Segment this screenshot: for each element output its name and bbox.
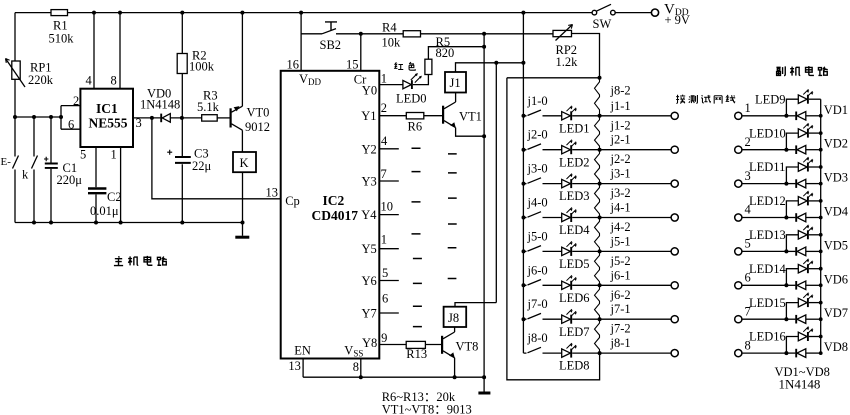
- svg-text:Y8: Y8: [362, 336, 377, 350]
- svg-text:j3-2: j3-2: [610, 186, 631, 200]
- IC1 pins 2/6 bracket: [61, 106, 80, 130]
- wire LED branch row 3: [786, 167, 798, 184]
- svg-text:k: k: [22, 168, 29, 182]
- svg-text:LED4: LED4: [559, 223, 590, 237]
- wire LED branch row 6: [786, 269, 798, 286]
- svg-text:VD8: VD8: [824, 340, 848, 354]
- svg-text:Y5: Y5: [362, 242, 377, 256]
- transistor VT8: [441, 336, 443, 354]
- svg-text:j1-0: j1-0: [527, 94, 548, 108]
- svg-text:J1: J1: [450, 76, 461, 90]
- svg-text:E-: E-: [1, 156, 12, 168]
- svg-text:6: 6: [68, 118, 74, 132]
- wire J8 top to coil rail: [455, 303, 496, 307]
- wire LED branch row 7: [786, 303, 798, 320]
- svg-text:13: 13: [266, 186, 279, 200]
- svg-text:LED0: LED0: [396, 91, 427, 105]
- stub Y4: [379, 214, 399, 216]
- svg-text:VT1: VT1: [459, 110, 482, 124]
- svg-text:100k: 100k: [189, 60, 215, 74]
- svg-text:j8-2: j8-2: [610, 84, 631, 98]
- wire row 2 to node: [742, 149, 787, 151]
- diode VD2: [786, 149, 795, 151]
- svg-text:K: K: [240, 156, 249, 170]
- svg-text:220μ: 220μ: [57, 173, 83, 187]
- ground main circuit: [242, 223, 244, 236]
- diode VD1: [786, 115, 795, 117]
- svg-text:16: 16: [287, 58, 300, 72]
- terminal row 5 right: [735, 248, 742, 255]
- svg-text:VT0: VT0: [247, 106, 270, 120]
- svg-text:LED16: LED16: [749, 330, 786, 344]
- svg-text:j6-0: j6-0: [527, 263, 548, 277]
- wire row 6 to node: [742, 284, 787, 286]
- diode VD0: [160, 114, 162, 123]
- wire IC1 pin 5 to C2: [95, 147, 97, 187]
- wire row 5 to left terminal: [572, 250, 671, 252]
- LED LED4: [562, 213, 571, 221]
- resistor R6: [406, 113, 424, 119]
- svg-text:LED6: LED6: [559, 291, 590, 305]
- LED LED11: [798, 163, 807, 172]
- svg-text:4: 4: [381, 134, 388, 148]
- IC1 NE555: [80, 89, 133, 147]
- ellipsis dashes column R: [412, 148, 422, 326]
- wire row 5 to node: [742, 250, 787, 252]
- svg-text:VD4: VD4: [824, 205, 849, 219]
- svg-text:6: 6: [382, 291, 388, 305]
- svg-text:j2-1: j2-1: [610, 133, 631, 147]
- svg-text:j8-1: j8-1: [610, 336, 631, 350]
- terminal row 4 right: [735, 214, 742, 221]
- switch j7-0: [524, 313, 562, 319]
- wire node row to IC1 pins 2/6 bracket: [15, 116, 61, 118]
- relay coil J8: [444, 307, 467, 327]
- wire LED branch row 5: [786, 235, 798, 252]
- svg-text:j1-2: j1-2: [610, 118, 631, 132]
- switch j3-0: [524, 178, 562, 184]
- svg-text:j7-2: j7-2: [610, 322, 631, 336]
- diode VD5: [786, 250, 795, 252]
- svg-text:1: 1: [381, 72, 387, 86]
- svg-text:LED7: LED7: [559, 325, 590, 339]
- svg-text:SB2: SB2: [320, 38, 342, 52]
- svg-text:LED8: LED8: [559, 359, 590, 373]
- svg-text:5.1k: 5.1k: [197, 100, 220, 114]
- diode VD6: [786, 284, 795, 286]
- svg-text:VD1: VD1: [824, 103, 848, 117]
- svg-text:1: 1: [381, 232, 387, 246]
- switch k: [32, 117, 38, 223]
- svg-text:j6-1: j6-1: [610, 268, 631, 282]
- svg-text:5: 5: [382, 266, 388, 280]
- svg-text:13: 13: [288, 359, 301, 373]
- svg-text:R6: R6: [408, 119, 423, 133]
- svg-text:22μ: 22μ: [192, 159, 212, 173]
- svg-text:LED13: LED13: [749, 228, 786, 242]
- capacitor C3: [181, 118, 183, 223]
- wire row 1 to node: [742, 115, 787, 117]
- wire row 7 to left terminal: [572, 318, 671, 320]
- svg-text:R13: R13: [406, 347, 427, 361]
- test-line return loop: [507, 78, 600, 380]
- svg-text:VD7: VD7: [824, 306, 848, 320]
- LED LED10: [798, 129, 807, 138]
- potentiometer RP2: [553, 30, 572, 36]
- svg-text:IC2: IC2: [323, 193, 345, 208]
- wire IC2 EN pin 13: [302, 359, 304, 378]
- wire IC2 VSS pin 8: [360, 359, 362, 378]
- svg-text:VD6: VD6: [824, 272, 848, 286]
- wire row 7 to node: [742, 318, 787, 320]
- relay coil J1: [445, 72, 466, 93]
- transistor VT1: [442, 106, 444, 124]
- switch SW: [592, 10, 597, 15]
- switch j1-0: [524, 110, 562, 116]
- wire left rail top: [14, 13, 16, 61]
- svg-text:LED12: LED12: [749, 194, 786, 208]
- switch j2-0: [524, 144, 562, 150]
- svg-text:R4: R4: [382, 21, 397, 35]
- svg-text:R1: R1: [53, 19, 68, 33]
- LED LED15: [798, 298, 807, 307]
- LED LED6: [562, 281, 571, 289]
- wire row 6 to left terminal: [572, 284, 671, 286]
- switch j4-0: [524, 212, 562, 218]
- wire IC1 pin 8: [119, 13, 121, 89]
- ellipsis dashes column VT/J: [448, 154, 457, 279]
- svg-text:LED2: LED2: [559, 155, 590, 169]
- wire Y0 pin 1: [379, 84, 403, 86]
- coil supply rail: [495, 63, 497, 303]
- svg-text:1: 1: [745, 101, 751, 115]
- svg-text:VT8: VT8: [456, 340, 479, 354]
- svg-text:4: 4: [86, 73, 93, 87]
- svg-text:j3-0: j3-0: [527, 162, 548, 176]
- svg-text:LED10: LED10: [749, 126, 786, 140]
- svg-text:8: 8: [353, 360, 359, 374]
- svg-text:+ 9V: + 9V: [665, 13, 690, 27]
- wire LED branch row 2: [786, 133, 798, 150]
- terminal row 4 left: [671, 214, 678, 221]
- transistor VT0: [230, 108, 232, 127]
- wire J1 top to VDD rail: [456, 63, 525, 72]
- svg-text:j4-2: j4-2: [610, 220, 631, 234]
- IC2 CD4017: [281, 71, 380, 359]
- wire row 8 to left terminal: [572, 352, 671, 354]
- diode VD3: [786, 183, 795, 185]
- svg-text:1.2k: 1.2k: [556, 55, 579, 69]
- svg-text:j4-1: j4-1: [610, 201, 631, 215]
- LED LED7: [562, 315, 571, 323]
- wire Y8 pin 9 to R13: [379, 344, 406, 346]
- wire IC1 pin 4: [93, 13, 95, 89]
- stub Y6: [379, 280, 399, 282]
- svg-text:j7-1: j7-1: [610, 302, 631, 316]
- label 接测试网线 (connect test cable): [676, 95, 735, 104]
- wavy test cable line: [595, 78, 600, 353]
- svg-text:Y7: Y7: [362, 307, 377, 321]
- resistor R13: [406, 341, 425, 348]
- terminal row 2 left: [671, 146, 678, 153]
- LED LED3: [562, 179, 571, 187]
- LED LED0 red: [403, 80, 411, 88]
- capacitor C1: [50, 117, 52, 223]
- svg-text:Cp: Cp: [285, 194, 300, 208]
- svg-text:Y6: Y6: [362, 274, 377, 288]
- svg-text:NE555: NE555: [89, 116, 128, 131]
- wire left rail RP1 to node: [14, 79, 16, 117]
- terminal row 7 left: [671, 316, 678, 323]
- terminal row 7 right: [735, 316, 742, 323]
- svg-text:VD3: VD3: [824, 171, 848, 185]
- wire row 4 to node: [742, 217, 787, 219]
- switch j6-0: [524, 280, 562, 286]
- resistor R3: [202, 115, 218, 121]
- wire row 3 to node: [742, 183, 787, 185]
- svg-text:9012: 9012: [245, 120, 270, 134]
- svg-text:J8: J8: [448, 311, 459, 325]
- wire top supply bus from R1 to SW: [68, 12, 593, 14]
- svg-text:j5-2: j5-2: [610, 254, 631, 268]
- svg-text:j1-1: j1-1: [610, 99, 631, 113]
- terminal row 8 right: [735, 350, 742, 357]
- svg-text:j8-0: j8-0: [527, 331, 548, 345]
- svg-text:10k: 10k: [382, 35, 402, 49]
- terminal row 3 right: [735, 180, 742, 187]
- svg-text:j2-2: j2-2: [610, 152, 631, 166]
- LED LED16: [798, 332, 807, 341]
- svg-text:CD4017: CD4017: [312, 208, 359, 223]
- wire top bus SW to VDD terminal: [615, 12, 651, 14]
- wire row 1 to left terminal: [572, 115, 671, 117]
- wire IC2 pin 15 Cr: [360, 34, 362, 71]
- svg-text:j2-0: j2-0: [527, 128, 548, 142]
- wire IC1 pin 3: [133, 117, 160, 119]
- svg-text:EN: EN: [294, 344, 311, 358]
- svg-text:j5-1: j5-1: [610, 234, 631, 248]
- svg-text:LED11: LED11: [749, 160, 785, 174]
- label main circuit 主机电路: [114, 256, 167, 266]
- potentiometer RP1: [12, 61, 20, 79]
- terminal row 1 left: [671, 112, 678, 119]
- svg-text:Y1: Y1: [361, 109, 376, 123]
- terminal row 1 right: [735, 112, 742, 119]
- svg-text:Y4: Y4: [361, 208, 377, 222]
- wire Cp tap down from pin3: [152, 118, 281, 199]
- wire Y1 pin 2 to R6: [379, 115, 406, 117]
- svg-text:j3-1: j3-1: [610, 167, 631, 181]
- svg-text:j7-0: j7-0: [527, 297, 548, 311]
- LED LED12: [798, 197, 807, 206]
- svg-text:15: 15: [346, 58, 359, 72]
- pushbutton SB2: [301, 29, 361, 34]
- stub Y3: [379, 180, 399, 182]
- resistor R2: [181, 13, 183, 54]
- svg-text:820: 820: [436, 46, 455, 60]
- wire row 3 to left terminal: [572, 183, 671, 185]
- resistor R4: [361, 33, 403, 35]
- resistor R1: [51, 10, 68, 16]
- LED LED9: [798, 95, 807, 104]
- svg-text:VD5: VD5: [824, 238, 848, 252]
- svg-text:j5-0: j5-0: [527, 229, 548, 243]
- svg-text:LED14: LED14: [749, 262, 787, 276]
- terminal row 2 right: [735, 146, 742, 153]
- wire IC2 pin 16 VDD: [300, 13, 302, 71]
- svg-text:j4-0: j4-0: [527, 196, 548, 210]
- LED LED14: [798, 264, 807, 273]
- LED LED5: [562, 247, 571, 255]
- svg-text:0.01μ: 0.01μ: [90, 204, 119, 218]
- switch j8-0: [524, 347, 562, 353]
- svg-text:LED9: LED9: [755, 92, 786, 106]
- label 红色 (red): [395, 62, 415, 70]
- svg-text:LED3: LED3: [559, 189, 590, 203]
- terminal row 6 left: [671, 282, 678, 289]
- svg-text:9: 9: [381, 331, 387, 345]
- LED LED8: [562, 349, 571, 357]
- diode VD7: [786, 318, 795, 320]
- wire row 4 to left terminal: [572, 217, 671, 219]
- resistor R5: [425, 59, 432, 74]
- wire LED branch row 8: [786, 337, 798, 354]
- wire LED branch row 1: [786, 99, 798, 116]
- diode VD8: [786, 352, 795, 354]
- terminal row 6 right: [735, 282, 742, 289]
- svg-text:2: 2: [381, 101, 387, 115]
- svg-text:j6-2: j6-2: [610, 288, 631, 302]
- svg-text:7: 7: [381, 167, 387, 181]
- slave right rail: [820, 99, 822, 353]
- svg-text:VT1~VT8：9013: VT1~VT8：9013: [382, 403, 472, 415]
- svg-text:SW: SW: [593, 17, 612, 31]
- ground IC2 bus: [483, 377, 485, 391]
- wire IC1 pin 1: [120, 147, 122, 223]
- relay coil K: [233, 152, 256, 172]
- wire row 2 to left terminal: [572, 149, 671, 151]
- svg-text:510k: 510k: [49, 32, 75, 46]
- svg-text:IC1: IC1: [96, 101, 118, 116]
- svg-text:VD2: VD2: [824, 137, 848, 151]
- switch E (pull switch): [13, 117, 19, 223]
- label 副机电路 (slave circuit): [776, 66, 827, 76]
- stub Y7: [379, 312, 399, 314]
- svg-text:220k: 220k: [28, 73, 54, 87]
- wire top supply bus left segment: [15, 12, 51, 14]
- terminal VDD: [651, 9, 658, 16]
- svg-text:C2: C2: [107, 190, 122, 204]
- switch j5-0: [524, 246, 562, 252]
- wire bottom bus VSS/EN/emitters: [303, 376, 484, 378]
- svg-text:5: 5: [80, 147, 86, 161]
- wire row 8 to node: [742, 352, 787, 354]
- svg-text:LED1: LED1: [559, 121, 590, 135]
- stub Y5: [379, 248, 399, 250]
- svg-text:Y3: Y3: [362, 175, 377, 189]
- terminal row 5 left: [671, 248, 678, 255]
- ground rail (emitters/R4/R5): [483, 34, 485, 377]
- capacitor C2: [88, 189, 106, 194]
- svg-text:LED15: LED15: [749, 296, 786, 310]
- diode VD4: [786, 217, 795, 219]
- svg-text:3: 3: [136, 116, 142, 130]
- svg-text:8: 8: [111, 73, 117, 87]
- wire LED branch row 4: [786, 201, 798, 218]
- svg-text:1: 1: [111, 147, 117, 161]
- LED LED2: [562, 146, 571, 154]
- svg-text:1N4148: 1N4148: [779, 377, 821, 392]
- stub Y2: [379, 148, 399, 150]
- svg-text:10: 10: [381, 200, 394, 214]
- wire bottom bus main circuit: [15, 222, 243, 224]
- svg-text:Y0: Y0: [362, 84, 377, 98]
- LED LED13: [798, 231, 807, 240]
- terminal row 8 left: [671, 350, 678, 357]
- svg-text:2: 2: [73, 94, 79, 108]
- svg-text:Y2: Y2: [362, 142, 377, 156]
- svg-text:1N4148: 1N4148: [140, 98, 180, 112]
- relay contact supply rail: [522, 13, 524, 354]
- LED LED1: [562, 112, 571, 120]
- terminal row 3 left: [671, 180, 678, 187]
- svg-text:LED5: LED5: [559, 257, 590, 271]
